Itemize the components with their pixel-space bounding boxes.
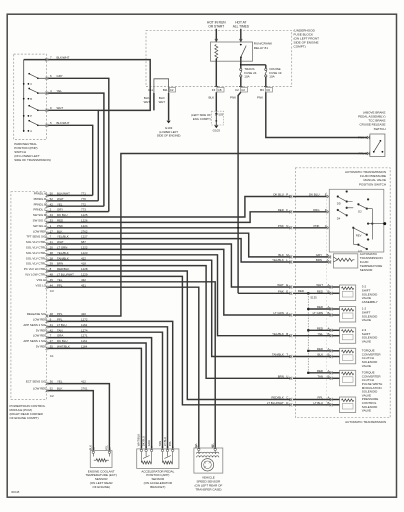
svg-text:OR START: OR START <box>208 25 224 29</box>
svg-text:LT BLU: LT BLU <box>163 437 167 446</box>
wire 1161 DK BLU to APP sensor <box>48 343 146 450</box>
vehicle speed sensor box <box>194 448 223 473</box>
PCM dashed box <box>11 192 47 400</box>
svg-text:BRN: BRN <box>316 258 322 262</box>
svg-text:WHT/BLK: WHT/BLK <box>137 434 141 447</box>
svg-text:B: B <box>212 444 214 448</box>
wire 1271 GRA to APP sensor <box>48 338 151 450</box>
svg-text:COMPT): COMPT) <box>294 45 306 49</box>
svg-text:C2: C2 <box>241 88 245 92</box>
svg-text:PNK: PNK <box>278 224 284 228</box>
svg-text:E: E <box>286 283 288 287</box>
svg-text:C11: C11 <box>148 88 153 92</box>
fuse block jumper bus C11-B11 <box>154 79 169 93</box>
svg-text:LOW REF: LOW REF <box>33 334 46 338</box>
svg-text:G103: G103 <box>213 129 221 133</box>
svg-text:C: C <box>30 82 32 86</box>
svg-text:ECT SENS SIG: ECT SENS SIG <box>26 380 47 384</box>
svg-text:D: D <box>151 445 153 449</box>
svg-text:SENSOR: SENSOR <box>360 268 374 272</box>
wire 1228 RED/BLK to pressure control solenoid <box>48 271 290 400</box>
wire relay coil to connector F3 <box>215 59 217 87</box>
svg-text:LOW REF: LOW REF <box>33 229 46 233</box>
TCC switch blade <box>373 151 375 153</box>
svg-text:LOW REF: LOW REF <box>33 387 46 391</box>
solenoid TORQUE pin B wire <box>333 377 340 379</box>
solenoid PRESSURE pin A wire <box>333 399 340 401</box>
manual valve position switch box <box>329 189 384 252</box>
svg-text:TRANSFER CASE): TRANSFER CASE) <box>195 487 221 491</box>
wire 432 YEL to VSS <box>48 282 215 449</box>
fuse block bottom connector ticks <box>215 86 268 88</box>
wire LT BLU B into pressure control solenoid <box>293 404 331 406</box>
svg-text:SOL VLV CTRL: SOL VLV CTRL <box>26 262 46 266</box>
svg-text:A: A <box>196 444 198 448</box>
VSS coil windings <box>197 452 219 454</box>
wire BLK B into TCC solenoid <box>293 356 331 358</box>
PNP bus node A <box>23 130 25 132</box>
svg-text:D: D <box>286 401 288 405</box>
svg-text:C8: C8 <box>218 88 222 92</box>
PNP bus node B <box>23 98 25 100</box>
svg-text:P: P <box>286 193 288 197</box>
svg-text:APP SENS 1 SIG: APP SENS 1 SIG <box>23 339 46 343</box>
svg-text:BLK/WHT: BLK/WHT <box>57 121 70 125</box>
solenoid valve box 3-2 SHIFT <box>340 285 356 301</box>
fuse CRUISE FUSE 19 10A <box>265 68 267 70</box>
automatic transmission dashed box <box>296 168 391 418</box>
wire 1224 PNK to position switch pin C <box>48 227 290 229</box>
TFT sensor resistor <box>333 257 337 262</box>
svg-text:ENG COMPT): ENG COMPT) <box>193 117 211 121</box>
svg-text:A: A <box>172 445 174 449</box>
position switch internal contacts <box>337 191 384 250</box>
wire 1272 PPL to APP sensor <box>48 321 173 450</box>
PNP bus node C <box>23 83 25 85</box>
wire 776 row <box>48 200 98 202</box>
svg-text:T: T <box>286 353 288 357</box>
svg-text:C6: C6 <box>266 88 270 92</box>
svg-text:PRNDL A: PRNDL A <box>34 192 46 196</box>
PNP switch blade for pin 5 <box>28 120 30 122</box>
svg-text:SWITCH: SWITCH <box>374 127 386 131</box>
svg-text:5V REF: 5V REF <box>36 328 46 332</box>
pin 9 WHT wire <box>46 109 48 112</box>
feed pin triangle right <box>239 39 242 42</box>
svg-text:WHT: WHT <box>57 106 64 110</box>
svg-text:D4: D4 <box>337 217 341 221</box>
svg-text:PRNDL B: PRNDL B <box>34 202 46 206</box>
wire LT GRN B into 1-2 solenoid <box>293 314 331 316</box>
wire 687 WHT to 3-2 shift solenoid <box>48 244 290 287</box>
solenoid TORQUE pin A wire <box>333 372 340 374</box>
svg-text:RED: RED <box>278 208 284 212</box>
wire DK BLU inside transmission to pin E <box>293 196 327 198</box>
pin 6 GRY wire <box>46 77 48 80</box>
wire relay switch to fuses <box>240 57 242 68</box>
svg-text:LT GRN: LT GRN <box>273 311 283 315</box>
APP sensor potentiometer 1 <box>143 452 150 459</box>
svg-text:WHT: WHT <box>159 100 166 104</box>
PNP bus feed to pin 7 <box>24 59 47 61</box>
solenoid 2-3 pin A wire <box>333 329 340 331</box>
solenoid valve box TORQUE CONVERTER <box>340 370 356 386</box>
svg-text:PNK: PNK <box>257 95 263 99</box>
APP sensor potentiometer 2 <box>164 452 171 459</box>
svg-text:10A: 10A <box>244 75 249 79</box>
splice node S135 <box>307 292 309 294</box>
PNP common bus <box>23 60 25 132</box>
wire 771 row <box>48 194 92 196</box>
svg-text:SW SIG B: SW SIG B <box>33 213 46 217</box>
svg-text:B11: B11 <box>163 88 168 92</box>
svg-text:A: A <box>327 258 329 262</box>
run/crank relay box <box>211 42 253 61</box>
wire trans fuse to connector C2 <box>240 77 242 87</box>
wire 1274 TAN to APP sensor <box>48 332 162 450</box>
relay switch blade <box>240 44 242 46</box>
position switch output node <box>383 222 386 225</box>
svg-text:VALVE: VALVE <box>362 364 371 368</box>
svg-text:RED/BLK: RED/BLK <box>271 396 283 400</box>
wire 1225 DK BLU to position switch pin E <box>48 197 290 218</box>
wire RED B from 3-2 solenoid to splice <box>293 292 331 294</box>
wire 412 YEL to ECT sensor <box>48 384 109 452</box>
svg-text:PC VLV HI CTRL: PC VLV HI CTRL <box>24 267 47 271</box>
solenoid 1-2 pin A wire <box>333 308 340 310</box>
svg-text:SIDE OF TRANSMISSION): SIDE OF TRANSMISSION) <box>14 158 51 162</box>
svg-text:GRY: GRY <box>57 74 63 78</box>
svg-text:BLK: BLK <box>89 445 93 450</box>
svg-text:VALVE: VALVE <box>362 409 371 413</box>
svg-text:OF ENGINE): OF ENGINE) <box>92 485 110 489</box>
wire GRY to TFT sensor pin B <box>293 256 329 258</box>
svg-text:PNK: PNK <box>278 289 284 293</box>
splice node S135 <box>307 372 309 374</box>
relay coil <box>215 45 218 59</box>
svg-text:C2: C2 <box>235 88 239 92</box>
svg-text:VSS HI: VSS HI <box>37 278 47 282</box>
svg-text:SW SIG A: SW SIG A <box>33 224 46 228</box>
svg-text:420: 420 <box>81 312 86 316</box>
svg-text:DD: DD <box>337 202 341 206</box>
wire BRN to TFT sensor pin A <box>293 261 329 263</box>
svg-text:D2: D2 <box>358 209 362 213</box>
svg-text:SOL VLV CTRL: SOL VLV CTRL <box>26 246 46 250</box>
pin 5 BLK/WHT wire <box>46 124 48 127</box>
svg-text:ORG: ORG <box>313 208 320 212</box>
svg-text:SOL VLV CTRL: SOL VLV CTRL <box>26 251 46 255</box>
svg-text:WHT: WHT <box>144 100 151 104</box>
wire 2762 BLK to TFT sensor <box>48 233 290 257</box>
ground G103 under fuse block <box>214 125 218 128</box>
wire 773 row <box>48 211 109 213</box>
svg-text:C2: C2 <box>50 394 54 398</box>
svg-text:F3: F3 <box>212 88 216 92</box>
wire ORG inside transmission to pin D <box>293 211 327 213</box>
svg-text:DK BLU: DK BLU <box>273 193 283 197</box>
svg-text:ALL TIMES: ALL TIMES <box>233 25 249 29</box>
wire YEL B into 2-3 solenoid <box>293 335 331 337</box>
wire 422 TAN/BLK to TCC solenoid <box>48 260 290 356</box>
svg-text:BLK: BLK <box>278 253 284 257</box>
svg-text:P: P <box>30 114 32 118</box>
svg-text:B3: B3 <box>260 88 264 92</box>
svg-text:B: B <box>286 332 288 336</box>
wire to cruise fuse <box>241 64 266 66</box>
svg-text:PRNDL C: PRNDL C <box>33 208 46 212</box>
feed pin triangle left <box>215 39 218 42</box>
svg-text:RELEASE SIG: RELEASE SIG <box>27 312 47 316</box>
svg-text:DK BLU: DK BLU <box>309 193 319 197</box>
svg-text:ASSEMBLY: ASSEMBLY <box>362 300 378 304</box>
wire 772 row <box>48 205 104 207</box>
svg-text:OF ENGINE COMPT): OF ENGINE COMPT) <box>10 416 39 420</box>
wire 418 BRN to TCC PWM solenoid <box>48 266 290 379</box>
svg-text:TAN/BLK: TAN/BLK <box>272 353 284 357</box>
wire PNK inside transmission to pin C <box>293 227 327 229</box>
underhood fuse block dashed box <box>146 30 292 86</box>
svg-text:SIDE OF ENGINE): SIDE OF ENGINE) <box>157 134 181 138</box>
svg-text:E: E <box>286 289 288 293</box>
fuse TRANS FUSE 24 10A <box>240 68 242 70</box>
splice S135 bus <box>307 293 309 373</box>
svg-text:C1: C1 <box>50 354 54 358</box>
svg-text:A: A <box>286 311 288 315</box>
solenoid TORQUE pin B wire <box>333 356 340 358</box>
solenoid 3-2 pin A wire <box>333 286 340 288</box>
splice node S135 <box>307 350 309 352</box>
solenoid 1-2 pin B wire <box>333 314 340 316</box>
svg-text:WHT: WHT <box>277 283 284 287</box>
solenoid PRESSURE pin B wire <box>333 404 340 406</box>
VSS reluctor wheel <box>201 459 213 471</box>
svg-text:A: A <box>30 129 32 133</box>
svg-text:VLV LOW CTRL: VLV LOW CTRL <box>25 273 46 277</box>
solenoid valve box 1-2 SHIFT <box>340 307 356 323</box>
svg-text:SW SIG C: SW SIG C <box>33 219 46 223</box>
wire feed to relay coil <box>215 29 217 42</box>
svg-text:PPL: PPL <box>57 312 63 316</box>
svg-text:B: B <box>327 253 329 257</box>
solenoid valve box PRESSURE CONTROL <box>340 397 356 413</box>
splice pack SP103 dashed box <box>212 111 224 125</box>
svg-text:30048: 30048 <box>11 490 20 494</box>
svg-text:PNK: PNK <box>358 136 364 140</box>
svg-text:POSITION SWITCH: POSITION SWITCH <box>359 182 386 186</box>
svg-text:TFT SENS SIG: TFT SENS SIG <box>26 235 46 239</box>
svg-text:C3: C3 <box>50 289 54 293</box>
svg-text:AUTOMATIC TRANSMISSION: AUTOMATIC TRANSMISSION <box>345 420 386 424</box>
svg-text:10A: 10A <box>269 75 274 79</box>
svg-text:S135: S135 <box>310 295 317 299</box>
PNP bus node P <box>23 115 25 117</box>
svg-text:LT BLU/WHT: LT BLU/WHT <box>267 401 284 405</box>
accelerator pedal position sensor box <box>137 449 179 469</box>
svg-text:U: U <box>286 374 288 378</box>
wire TAN B into TCC PWM solenoid <box>293 377 331 379</box>
transmission inner connector dashed line <box>326 192 328 407</box>
svg-text:SOL VLV CTRL: SOL VLV CTRL <box>26 240 46 244</box>
svg-text:C2: C2 <box>170 88 174 92</box>
svg-text:SOL VLV CTRL: SOL VLV CTRL <box>26 256 46 260</box>
park/neutral position switch dashed box <box>14 54 47 140</box>
splice node S135 <box>307 329 309 331</box>
junction splice on PNK ignition feed <box>237 227 239 229</box>
svg-text:BLK: BLK <box>209 95 215 99</box>
ground G103 lower left side of engine <box>167 121 171 124</box>
junction node fuse feed <box>240 64 242 66</box>
wire PPL TCC switch to release sig <box>49 154 368 317</box>
pin 4 YEL wire <box>46 91 48 94</box>
svg-text:VALVE: VALVE <box>362 339 371 343</box>
wire 1223 YEL/BLK to 2-3 shift solenoid <box>48 255 290 336</box>
svg-text:YEL: YEL <box>105 445 109 451</box>
PNP switch blade for pin 9 <box>28 105 30 107</box>
wire 1227 YEL/BLK to TFT sensor <box>48 239 290 262</box>
svg-text:C: C <box>286 396 288 400</box>
ECT sensor resistor <box>93 453 109 460</box>
wire feed to relay switch <box>240 29 242 42</box>
svg-text:PNK: PNK <box>314 224 320 228</box>
svg-text:PRNDL P: PRNDL P <box>34 197 46 201</box>
transmission fluid temperature sensor box <box>333 254 357 268</box>
solenoid TORQUE pin A wire <box>333 350 340 352</box>
svg-text:B: B <box>30 97 32 101</box>
wire 431 PPL to VSS <box>48 287 199 449</box>
wire PNK feed to 3-2 shift solenoid <box>238 292 290 294</box>
wire 1164 WHT/BLK to APP sensor <box>48 348 141 450</box>
svg-text:APP SENS 2 SIG: APP SENS 2 SIG <box>23 323 46 327</box>
wire PPL A into pressure control solenoid <box>293 399 331 401</box>
svg-text:REV: REV <box>356 234 362 238</box>
engine coolant temperature sensor box <box>90 451 112 468</box>
PNP switch blade for pin 6 <box>28 73 30 75</box>
svg-text:VSS LO: VSS LO <box>36 283 47 287</box>
PNP switch blade for pin 4 <box>28 88 30 90</box>
wire 2761 BLK to ECT sensor <box>48 391 93 452</box>
svg-text:YEL/BLK: YEL/BLK <box>272 258 284 262</box>
wire 1229 LT BLU/WHT to pressure control solenoid <box>48 276 290 404</box>
svg-text:F: F <box>286 208 288 212</box>
wire 1162 LT BLU to APP sensor <box>48 327 167 450</box>
svg-text:YEL: YEL <box>57 89 63 93</box>
svg-text:LOW REF: LOW REF <box>33 318 46 322</box>
svg-text:48: 48 <box>50 312 54 316</box>
pin 7 BLK/WHT wire to fuse block C11 <box>46 58 48 61</box>
splice node S135 <box>307 308 309 310</box>
wire 1222 LT GRN to 1-2 shift solenoid <box>48 249 290 315</box>
solenoid 2-3 pin B wire <box>333 335 340 337</box>
solenoid valve box TORQUE CONVERTER <box>340 348 356 364</box>
wire RED A feeds from splice <box>308 308 330 310</box>
svg-text:5V REF: 5V REF <box>36 345 46 349</box>
solenoid valve box 2-3 SHIFT <box>340 328 356 344</box>
svg-text:RELAY 81: RELAY 81 <box>254 46 268 50</box>
solenoid 3-2 pin B wire <box>333 292 340 294</box>
svg-text:BLK/WHT: BLK/WHT <box>57 55 70 59</box>
svg-text:DK BLU: DK BLU <box>141 436 145 446</box>
TCC brake cruise release switch box <box>370 134 385 157</box>
svg-text:YEL/BLK: YEL/BLK <box>272 332 284 336</box>
svg-text:BRN: BRN <box>278 374 284 378</box>
wire WHT A into 3-2 solenoid <box>293 286 331 288</box>
svg-text:GRY: GRY <box>316 253 322 257</box>
svg-text:PNK: PNK <box>230 95 236 99</box>
svg-text:VALVE: VALVE <box>362 318 371 322</box>
svg-text:N: N <box>286 224 288 228</box>
wire cruise fuse to connector B3 <box>265 77 267 87</box>
wire 1226 RED to position switch pin D <box>48 212 290 223</box>
svg-text:BRACKET): BRACKET) <box>150 485 165 489</box>
